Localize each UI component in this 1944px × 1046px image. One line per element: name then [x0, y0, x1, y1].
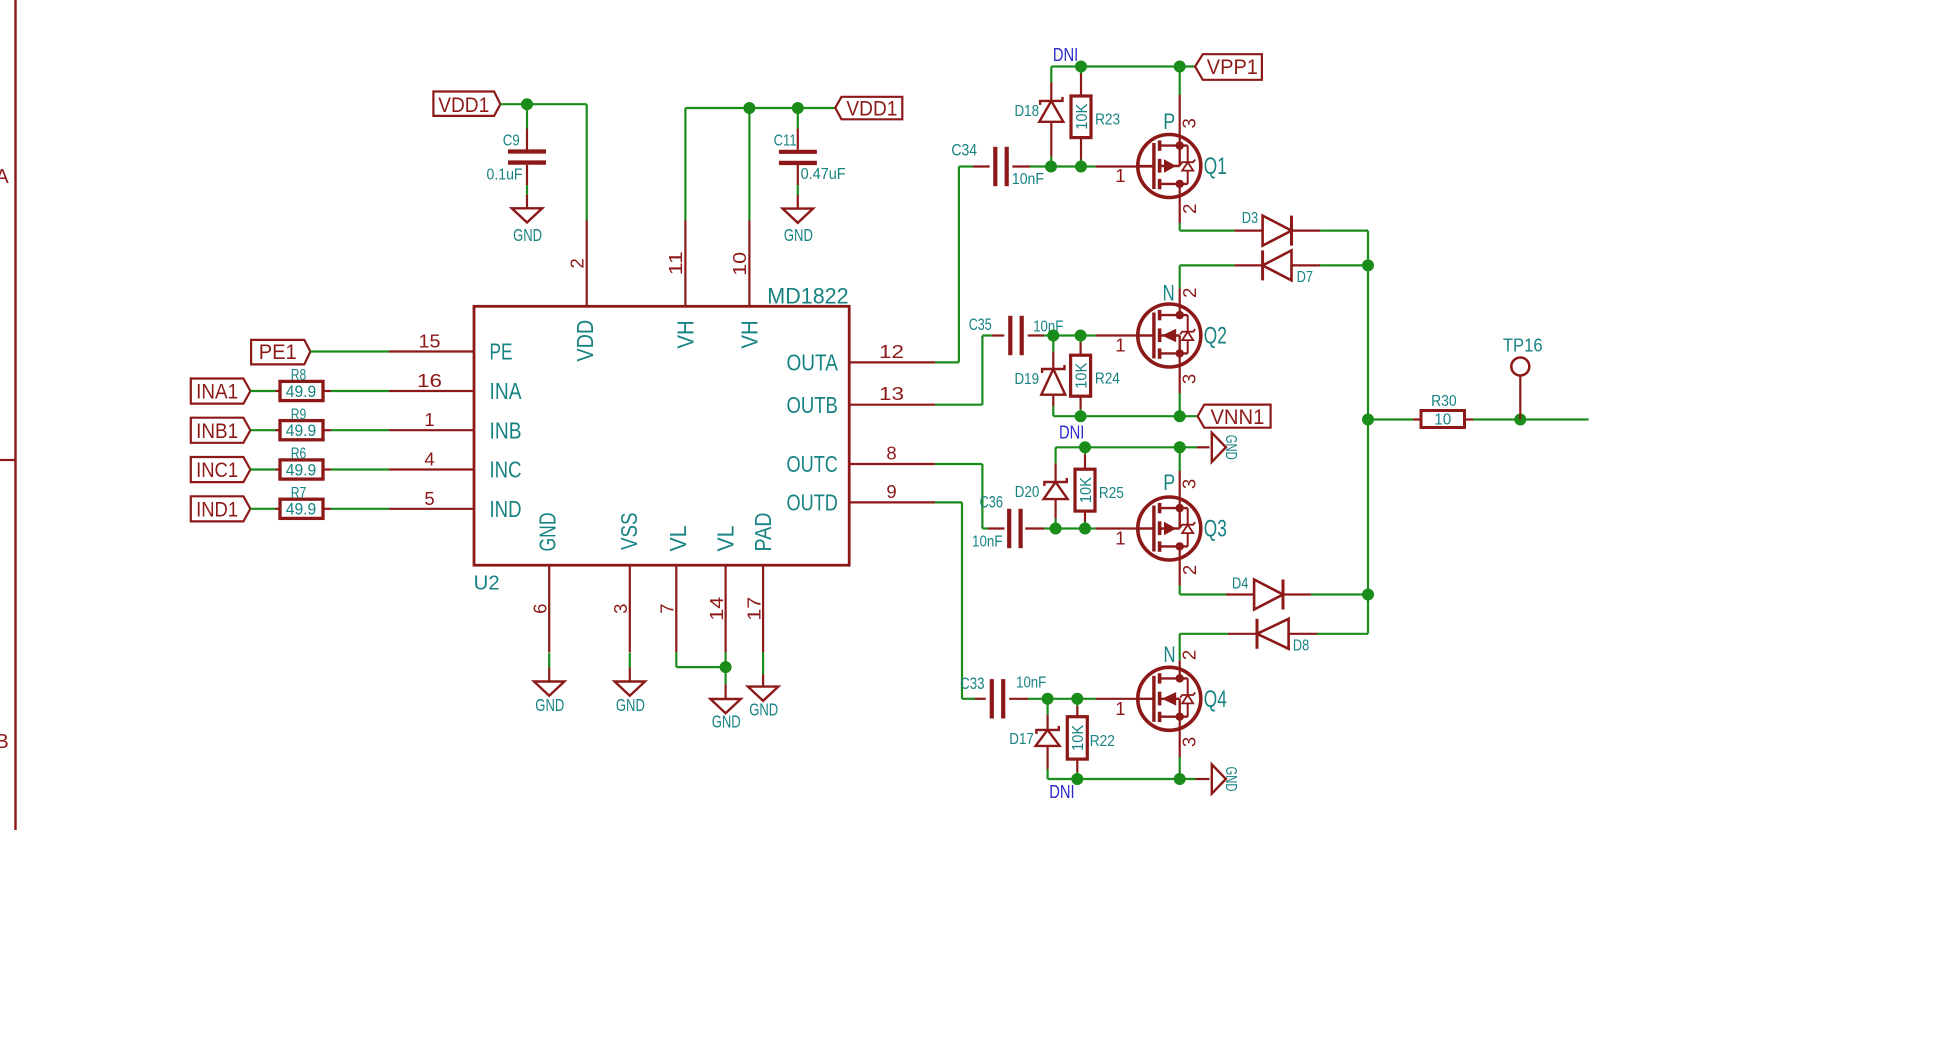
svg-text:D17: D17 — [1009, 731, 1034, 748]
wire D20 to R25 — [1056, 527, 1085, 529]
svg-text:N: N — [1163, 281, 1175, 306]
svg-text:14: 14 — [706, 597, 727, 621]
svg-text:49.9: 49.9 — [286, 422, 317, 440]
zener diode D19 — [1052, 336, 1054, 352]
pin name VSS — [616, 512, 642, 550]
wire R7 to IC — [331, 508, 389, 510]
pin 11 VH — [684, 108, 686, 221]
junction D19/gate — [1047, 330, 1059, 342]
pin3 gnd lead — [629, 653, 631, 668]
C9 bottom lead — [526, 165, 528, 185]
capacitor C9 top lead — [526, 104, 528, 128]
svg-text:2: 2 — [1179, 650, 1200, 660]
junction D17/gate — [1042, 693, 1054, 705]
svg-text:OUTD: OUTD — [787, 490, 838, 516]
svg-text:U2: U2 — [474, 573, 500, 595]
svg-text:OUTC: OUTC — [787, 451, 838, 477]
svg-text:VDD1: VDD1 — [846, 97, 897, 120]
junction D7 bus — [1362, 259, 1374, 271]
svg-text:3: 3 — [610, 604, 631, 614]
svg-text:A: A — [0, 166, 9, 188]
wire Q4 to D8 — [1180, 633, 1228, 635]
svg-text:VL: VL — [665, 525, 691, 551]
junction pin10 — [743, 102, 755, 114]
svg-text:VPP1: VPP1 — [1207, 56, 1258, 79]
wire gate Q2 — [1081, 334, 1096, 336]
capacitor C11 — [779, 150, 817, 154]
svg-text:GND: GND — [535, 512, 561, 551]
pin name PAD — [750, 512, 776, 551]
svg-text:Q2: Q2 — [1204, 323, 1227, 350]
svg-text:INC1: INC1 — [196, 459, 238, 482]
pin name VL — [665, 525, 691, 551]
svg-text:49.9: 49.9 — [286, 461, 317, 479]
wire D19 to R24 — [1053, 334, 1080, 336]
wire VNN net — [1053, 415, 1197, 417]
Q2 pin2 wire — [1179, 265, 1181, 288]
wire INA1 to R8 — [250, 390, 276, 392]
power label VDD1 (right) — [835, 97, 902, 120]
resistor R8 49.9 — [280, 381, 323, 400]
junction TP16 — [1514, 414, 1526, 426]
svg-text:15: 15 — [419, 331, 441, 352]
Q4 pin2 wire — [1179, 634, 1181, 661]
capacitor C33 10nF — [990, 679, 994, 718]
pin 13 — [849, 404, 935, 406]
pin 17 — [762, 565, 764, 652]
svg-text:1: 1 — [1115, 528, 1125, 549]
svg-text:2: 2 — [1179, 204, 1200, 214]
wire D7 to bus — [1292, 264, 1321, 266]
svg-text:1: 1 — [1115, 335, 1125, 356]
svg-text:0.1uF: 0.1uF — [487, 166, 523, 183]
wire PE1 to pin15 — [310, 350, 389, 352]
Q4 pin number 3 — [1179, 737, 1200, 747]
pin number 2 — [566, 258, 587, 268]
wire gate Q3 — [1085, 527, 1096, 529]
svg-text:C33: C33 — [960, 674, 984, 693]
wire OUTD to C33 — [935, 501, 962, 503]
junction R25/gate — [1079, 523, 1091, 535]
svg-text:10K: 10K — [1070, 725, 1087, 751]
ground below C9 — [512, 208, 542, 222]
resistor R25 10K — [1084, 447, 1086, 454]
Q2 pin number 2 — [1179, 288, 1200, 298]
junction D20/gate — [1050, 523, 1062, 535]
svg-text:1: 1 — [424, 409, 434, 430]
svg-text:7: 7 — [657, 604, 678, 614]
pin 8 — [849, 463, 935, 465]
sheet border left edge — [14, 0, 16, 830]
input label INB1 — [191, 418, 251, 443]
svg-text:C35: C35 — [969, 315, 992, 334]
svg-text:D20: D20 — [1015, 484, 1040, 501]
Q4 pin3 wire — [1179, 717, 1181, 757]
pin6 gnd lead — [548, 653, 550, 668]
ground right Q4 — [1212, 764, 1226, 793]
junction Q2 source — [1174, 410, 1186, 422]
pin number 3 — [610, 604, 631, 614]
svg-text:D18: D18 — [1015, 103, 1040, 120]
svg-text:INA1: INA1 — [196, 381, 238, 404]
svg-text:C9: C9 — [503, 133, 520, 150]
svg-text:TP16: TP16 — [1503, 335, 1543, 355]
svg-text:2: 2 — [566, 258, 587, 268]
wire D18 to R23 — [1051, 165, 1081, 167]
resistor R30 — [1421, 411, 1465, 428]
pin 16 — [389, 390, 474, 392]
C33 left lead — [962, 698, 975, 700]
pin 1 — [389, 429, 474, 431]
svg-text:3: 3 — [1178, 118, 1199, 128]
Q3 pin2 wire — [1179, 546, 1181, 585]
pin number 7 — [657, 604, 678, 614]
pin14 gnd lead — [724, 673, 726, 685]
svg-text:10: 10 — [729, 252, 750, 276]
svg-text:10nF: 10nF — [1012, 171, 1044, 188]
ground PAD pin17 — [748, 687, 778, 701]
svg-text:PE1: PE1 — [259, 341, 297, 364]
junction R24 bottom — [1075, 410, 1087, 422]
input label INA1 — [191, 379, 251, 404]
resistor R7 49.9 — [280, 499, 323, 518]
capacitor C36 10nF — [1007, 509, 1011, 548]
C11 bottom lead — [797, 165, 799, 185]
pin name VH — [737, 320, 763, 348]
svg-text:R30: R30 — [1431, 393, 1457, 410]
svg-text:DNI: DNI — [1053, 44, 1078, 65]
wire INC1 to R6 — [250, 468, 276, 470]
svg-text:VDD: VDD — [572, 320, 598, 362]
svg-text:INC: INC — [490, 457, 522, 483]
wire IND1 to R7 — [250, 508, 276, 510]
zener diode D20 — [1054, 447, 1056, 463]
transistor Q1 PMOS — [1138, 135, 1201, 198]
svg-text:D4: D4 — [1232, 576, 1248, 593]
wire VDD1 to pin2 — [500, 103, 586, 105]
svg-text:PE: PE — [490, 339, 513, 365]
capacitor C11 top lead — [797, 108, 799, 129]
svg-text:10K: 10K — [1073, 362, 1090, 388]
svg-text:0.47uF: 0.47uF — [801, 166, 846, 183]
wire VDD1 right net — [685, 107, 835, 109]
svg-text:12: 12 — [879, 341, 904, 362]
junction R23 top — [1075, 61, 1087, 73]
junction R25 top — [1079, 441, 1091, 453]
svg-text:2: 2 — [1179, 565, 1200, 575]
svg-text:4: 4 — [424, 449, 434, 470]
pin name VH — [672, 320, 698, 348]
wire gate Q1 — [1081, 165, 1096, 167]
svg-text:Q3: Q3 — [1204, 516, 1227, 543]
Q1 pin3 wire — [1179, 67, 1181, 96]
svg-text:R24: R24 — [1095, 371, 1120, 388]
svg-text:3: 3 — [1179, 374, 1200, 384]
svg-text:R7: R7 — [291, 485, 307, 502]
junction Q4 source — [1174, 773, 1186, 785]
junction D4 bus — [1362, 589, 1374, 601]
Q3 pin number 3 — [1178, 479, 1199, 489]
wire bus to R30 — [1368, 418, 1413, 420]
svg-text:VSS: VSS — [616, 512, 642, 550]
pin17 gnd lead — [762, 652, 764, 674]
svg-text:INB: INB — [490, 417, 522, 443]
C35 left lead — [982, 334, 991, 336]
svg-text:10: 10 — [1434, 412, 1451, 429]
svg-text:2: 2 — [1179, 288, 1200, 298]
resistor R22 10K — [1076, 699, 1078, 706]
svg-text:C36: C36 — [980, 493, 1003, 512]
Q2 pin3 wire — [1179, 353, 1181, 393]
svg-text:1: 1 — [1115, 698, 1125, 719]
svg-text:OUTB: OUTB — [787, 392, 838, 418]
power label VDD1 (left) — [433, 92, 500, 116]
C34 right lead — [1012, 165, 1030, 167]
ground VSS pin3 — [615, 682, 645, 696]
wire gate Q4 — [1077, 698, 1095, 700]
zener diode D18 — [1050, 67, 1052, 83]
svg-text:IND: IND — [490, 496, 522, 522]
svg-text:IND1: IND1 — [196, 498, 238, 521]
svg-text:B: B — [0, 731, 9, 753]
junction Q1 source — [1174, 61, 1186, 73]
svg-text:D7: D7 — [1297, 269, 1313, 286]
svg-text:VDD1: VDD1 — [438, 94, 489, 117]
C36 left lead — [982, 527, 988, 529]
ground VL pin14 — [710, 699, 740, 713]
svg-text:VNN1: VNN1 — [1210, 406, 1264, 429]
pin14 wire stub — [724, 652, 726, 661]
diode D8 — [1257, 619, 1289, 649]
svg-text:17: 17 — [743, 597, 764, 621]
pin 7 — [675, 565, 677, 652]
svg-text:R25: R25 — [1099, 485, 1124, 502]
svg-text:GND: GND — [784, 225, 813, 245]
svg-text:D19: D19 — [1015, 371, 1040, 388]
svg-text:R6: R6 — [291, 446, 307, 463]
pin name VL — [712, 525, 738, 551]
pin name GND — [535, 512, 561, 551]
svg-text:INA: INA — [490, 378, 523, 404]
junction R22 bottom — [1071, 773, 1083, 785]
C35 right lead — [1028, 334, 1044, 336]
svg-text:INB1: INB1 — [196, 420, 238, 443]
svg-text:9: 9 — [886, 481, 896, 502]
C33 right lead — [1009, 698, 1028, 700]
svg-text:11: 11 — [665, 251, 686, 275]
wire output bus vertical — [1367, 231, 1369, 634]
transistor Q4 NMOS — [1138, 667, 1201, 730]
wire DNI-GND net Q4 — [1048, 778, 1196, 780]
pin 15 — [389, 350, 474, 352]
capacitor C35 10nF — [1008, 316, 1012, 355]
svg-text:Q4: Q4 — [1204, 686, 1227, 713]
Q1 pin number 2 — [1179, 204, 1200, 214]
svg-text:VH: VH — [672, 320, 698, 348]
capacitor C34 10nF — [993, 147, 997, 186]
ground GND pin6 — [534, 682, 564, 696]
junction bus to R30 — [1362, 414, 1374, 426]
svg-text:GND: GND — [1222, 435, 1239, 460]
svg-text:OUTA: OUTA — [787, 350, 839, 376]
pin 12 — [849, 361, 935, 363]
svg-text:GND: GND — [616, 695, 645, 715]
svg-text:1: 1 — [1115, 165, 1125, 186]
svg-text:GND: GND — [749, 700, 778, 720]
resistor R6 49.9 — [280, 460, 323, 479]
ground right Q3 — [1212, 433, 1226, 462]
svg-text:16: 16 — [417, 370, 442, 391]
wire VL pin7 to pin14 — [675, 652, 677, 667]
svg-text:VL: VL — [712, 525, 738, 551]
wire R30 to output — [1465, 418, 1474, 420]
svg-text:N: N — [1164, 642, 1176, 667]
diode D4 — [1254, 580, 1283, 610]
pin 9 — [849, 501, 935, 503]
wire OUTB to C35 — [935, 404, 982, 406]
wire D3 to bus — [1292, 230, 1321, 232]
svg-text:49.9: 49.9 — [286, 383, 317, 401]
wire VPP net top — [1051, 65, 1195, 67]
pin number 10 — [729, 252, 750, 276]
wire Q1 to D3 — [1180, 230, 1235, 232]
pin name VDD — [572, 320, 598, 362]
svg-text:3: 3 — [1178, 479, 1199, 489]
ground below C11 — [783, 209, 813, 223]
transistor Q3 PMOS — [1138, 497, 1201, 560]
resistor R9 49.9 — [280, 421, 323, 440]
C36 right lead — [1025, 527, 1044, 529]
Q2 pin number 3 — [1179, 374, 1200, 384]
svg-text:MD1822: MD1822 — [767, 284, 848, 309]
power label VNN1 — [1198, 405, 1271, 428]
junction R24/gate — [1075, 330, 1087, 342]
svg-text:6: 6 — [529, 604, 550, 614]
pin number 17 — [743, 597, 764, 621]
transistor Q2 NMOS — [1138, 304, 1201, 367]
svg-text:C34: C34 — [951, 140, 977, 159]
TP16 lead — [1519, 375, 1521, 419]
diode D3 — [1263, 216, 1292, 246]
svg-text:5: 5 — [424, 488, 434, 509]
pin number 6 — [529, 604, 550, 614]
svg-text:R9: R9 — [291, 406, 307, 423]
svg-text:P: P — [1163, 109, 1175, 134]
wire D17 to R22 — [1048, 698, 1078, 700]
wire OUTC to C36 — [935, 463, 982, 465]
svg-text:3: 3 — [1179, 737, 1200, 747]
svg-text:P: P — [1163, 470, 1175, 495]
junction D18/gate — [1045, 161, 1057, 173]
svg-text:VH: VH — [737, 320, 763, 348]
wire R6 to IC — [331, 468, 389, 470]
svg-text:GND: GND — [1222, 767, 1239, 792]
wire DNI-GND net Q3 — [1056, 446, 1197, 448]
pin 2 VDD — [586, 221, 588, 307]
svg-text:DNI: DNI — [1049, 781, 1074, 802]
resistor R24 10K — [1079, 336, 1081, 343]
wire down to VDD pin — [586, 104, 588, 220]
wire INB1 to R9 — [250, 429, 276, 431]
svg-text:GND: GND — [535, 695, 564, 715]
pin 14 — [724, 565, 726, 652]
svg-text:Q1: Q1 — [1204, 153, 1227, 180]
junction VL net — [720, 661, 732, 673]
input label INC1 — [191, 457, 251, 482]
wire Q3 to D4 — [1180, 593, 1226, 595]
svg-text:10K: 10K — [1078, 477, 1095, 503]
wire D8 to bus — [1289, 633, 1317, 635]
power label VPP1 — [1195, 54, 1262, 80]
junction R23/gate — [1075, 161, 1087, 173]
svg-text:R22: R22 — [1090, 733, 1115, 750]
junction at C11 — [792, 102, 804, 114]
wire R9 to IC — [331, 429, 389, 431]
svg-text:DNI: DNI — [1059, 421, 1084, 442]
svg-text:D3: D3 — [1242, 210, 1258, 227]
svg-text:13: 13 — [879, 383, 904, 404]
svg-text:8: 8 — [886, 443, 896, 464]
pin 4 — [389, 468, 474, 470]
pin number 14 — [706, 597, 727, 621]
input label PE1 — [251, 340, 310, 365]
zener diode D17 — [1046, 699, 1048, 715]
pin 5 — [389, 508, 474, 510]
svg-text:GND: GND — [513, 225, 542, 245]
wire R8 to IC — [331, 390, 389, 392]
svg-text:10nF: 10nF — [972, 533, 1003, 550]
Q1 pin2 wire — [1179, 184, 1181, 223]
junction at C9 — [521, 98, 533, 110]
svg-text:PAD: PAD — [750, 512, 776, 551]
pin 3 — [629, 565, 631, 652]
svg-text:49.9: 49.9 — [286, 501, 317, 519]
junction Q3 source — [1174, 441, 1186, 453]
wire D4 to bus — [1283, 593, 1311, 595]
svg-text:C11: C11 — [774, 133, 797, 150]
Q1 pin number 3 — [1178, 118, 1199, 128]
wire OUTA to C34 — [935, 361, 959, 363]
test point TP16 — [1511, 358, 1529, 376]
pin 6 — [548, 565, 550, 652]
input label IND1 — [191, 496, 251, 521]
svg-text:D8: D8 — [1293, 637, 1309, 654]
C34 left lead — [959, 165, 973, 167]
resistor R23 10K — [1080, 67, 1082, 74]
Q4 pin number 2 — [1179, 650, 1200, 660]
capacitor C9 — [508, 149, 546, 153]
pin 10 VH — [748, 108, 750, 221]
IC U2 body — [474, 306, 849, 565]
svg-text:10nF: 10nF — [1016, 675, 1046, 692]
diode D7 — [1263, 250, 1292, 280]
svg-text:10K: 10K — [1074, 104, 1091, 130]
svg-text:R23: R23 — [1095, 112, 1120, 129]
svg-text:GND: GND — [712, 712, 741, 732]
junction R22/gate — [1071, 693, 1083, 705]
Q3 pin number 2 — [1179, 565, 1200, 575]
Q3 pin3 wire — [1179, 447, 1181, 471]
wire Q2 to D7 — [1180, 264, 1235, 266]
svg-text:R8: R8 — [291, 367, 307, 384]
pin number 11 — [665, 251, 686, 275]
